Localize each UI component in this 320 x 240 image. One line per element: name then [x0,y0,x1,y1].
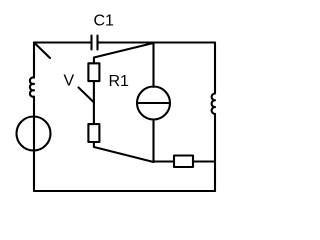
switch blade (diagonal at label V) [79,88,94,103]
current source (middle circle) [137,87,170,120]
switch blade (diagonal stub at top-left corner) [34,43,50,59]
svg-text:V: V [64,73,75,90]
wire right side upper [214,43,216,94]
svg-text:C1: C1 [94,13,115,30]
svg-text:R1: R1 [109,73,130,90]
wire bottom [34,190,215,192]
wire R3 to right side [193,160,215,162]
voltage source (left circle) [17,117,51,151]
wire current source top [152,43,154,88]
wire top-left horizontal [34,41,92,43]
wire top-right of C1 to node [98,41,154,43]
wire R2 bottom diagonal to junction [94,142,154,162]
inductor (left) [30,77,34,96]
resistor R2 (unlabeled) [88,124,99,142]
wire left side lower [33,97,35,191]
wire right side lower [214,114,216,191]
resistor R3 (unlabeled, bottom) [174,156,193,168]
wire diagonal from node to R1 top [94,43,154,63]
wire current source bottom [152,120,154,163]
inductor (right) [212,94,215,114]
wire node to top-right corner [154,41,216,43]
resistor R1 [88,63,99,81]
capacitor C1 [92,36,98,50]
wire R1 bottom to R2 top [93,81,95,124]
wire junction to R3 [154,160,175,162]
wire left side upper [33,43,35,78]
